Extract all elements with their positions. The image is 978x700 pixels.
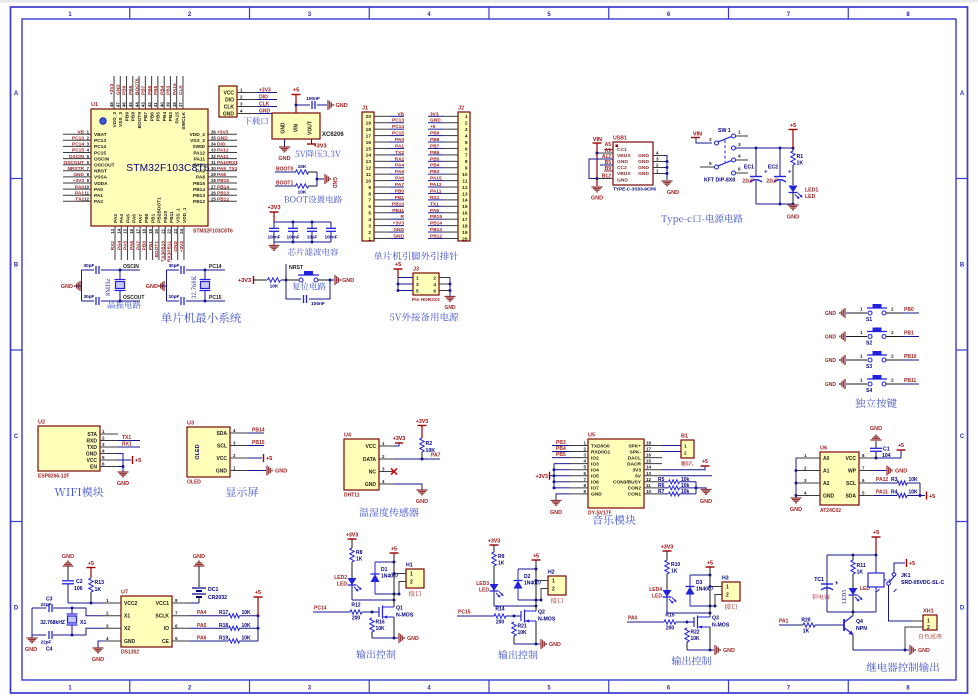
svg-text:GND: GND: [223, 111, 235, 117]
ground ds1302: [92, 648, 104, 663]
svg-text:PC15: PC15: [94, 150, 106, 156]
transistor Q2 N-MOS: [514, 606, 556, 644]
svg-text:PA1: PA1: [779, 619, 789, 625]
power VIN sw1: [691, 132, 712, 144]
svg-text:PA10: PA10: [193, 163, 205, 169]
svg-text:SRD-05VDC-SL-C: SRD-05VDC-SL-C: [901, 580, 944, 586]
svg-text:RX1: RX1: [122, 442, 132, 448]
resistor boot1 10K: [295, 184, 317, 196]
title download port: [244, 117, 268, 125]
svg-text:PA12: PA12: [430, 182, 442, 188]
svg-text:S1: S1: [866, 317, 872, 323]
svg-text:+3V3: +3V3: [535, 474, 548, 480]
svg-text:R18: R18: [219, 623, 228, 629]
wire music 3v3 rail: [553, 464, 571, 490]
svg-text:GND: GND: [173, 240, 179, 251]
module U4 pins: [363, 441, 394, 488]
wire at24 left rail: [795, 458, 798, 497]
svg-text:PC13: PC13: [392, 118, 404, 124]
svg-text:2: 2: [891, 354, 894, 360]
wire dht11 gnd: [394, 484, 422, 490]
svg-text:22uF: 22uF: [742, 179, 754, 185]
node PC14: [204, 264, 226, 272]
svg-text:R13: R13: [95, 580, 105, 586]
module U6 at24c02 body: [820, 446, 859, 506]
svg-text:DIO: DIO: [225, 97, 234, 103]
svg-text:46: 46: [122, 102, 127, 107]
svg-text:13: 13: [366, 159, 372, 165]
wire out2 main vert: [535, 569, 537, 606]
svg-text:VDD_1: VDD_1: [182, 207, 188, 223]
svg-text:GND: GND: [278, 156, 290, 162]
svg-text:D: D: [14, 606, 19, 612]
svg-text:21: 21: [160, 228, 165, 233]
svg-text:LED2: LED2: [334, 575, 347, 581]
svg-text:PB1: PB1: [904, 331, 914, 337]
svg-text:GND: GND: [823, 493, 835, 499]
wire usb B5 stub: [600, 164, 613, 166]
svg-text:PB4: PB4: [162, 112, 168, 122]
svg-text:N-MOS: N-MOS: [712, 623, 730, 629]
ground regulator cap: [328, 100, 348, 110]
gnd crystal1: [61, 281, 82, 291]
connector XH1: [905, 609, 937, 651]
svg-text:DHT11: DHT11: [344, 493, 360, 499]
svg-text:15: 15: [366, 146, 372, 152]
svg-text:A0: A0: [823, 456, 830, 462]
svg-text:1K: 1K: [95, 587, 102, 593]
svg-text:+3V3: +3V3: [238, 278, 251, 284]
svg-text:GND: GND: [444, 305, 456, 311]
power +5 ds1302: [254, 590, 263, 616]
svg-text:SCL: SCL: [217, 443, 227, 449]
module U7 ds1302 body: [121, 590, 172, 648]
ground wifi: [117, 467, 129, 488]
svg-text:22pF: 22pF: [41, 640, 52, 645]
svg-text:CE: CE: [162, 639, 170, 645]
crystal X1 32.768kHZ: [40, 607, 86, 636]
ground typec: [787, 205, 799, 221]
svg-text:Pin HDR2X3: Pin HDR2X3: [412, 297, 440, 303]
gnd crystal2: [146, 281, 167, 291]
ground regulator: [278, 139, 290, 162]
svg-text:+5: +5: [929, 494, 935, 500]
svg-text:30pF: 30pF: [84, 263, 95, 268]
svg-text:+5: +5: [395, 262, 401, 268]
svg-text:IO5: IO5: [591, 474, 599, 480]
svg-text:X2: X2: [124, 626, 130, 632]
svg-text:WP: WP: [848, 468, 857, 474]
capacitor crystal1 bottom 30pF: [82, 294, 121, 305]
connector J3 HDR2X3: [398, 267, 450, 296]
capacitor regulator 100nF: [296, 96, 327, 109]
svg-text:LED: LED: [652, 594, 662, 600]
power +3V3 out1: [346, 533, 359, 549]
net label TX1: [118, 435, 140, 441]
svg-text:VB: VB: [397, 111, 404, 117]
svg-text:VCC: VCC: [86, 458, 97, 464]
svg-text:PB14: PB14: [217, 184, 229, 190]
wire usb A12 loop: [589, 159, 613, 180]
svg-text:GND: GND: [216, 468, 228, 474]
label H1 jiekou: [409, 591, 421, 597]
ground DC1 top: [193, 554, 205, 566]
capacitors filter bank: [268, 222, 338, 242]
module U2 esp8266 body: [38, 420, 100, 472]
svg-text:PA4: PA4: [395, 163, 404, 169]
title output control 1: [356, 650, 395, 659]
svg-text:PB8: PB8: [128, 85, 134, 95]
svg-text:47: 47: [115, 102, 120, 107]
power VIN usb: [593, 137, 603, 186]
svg-text:1: 1: [860, 330, 863, 336]
power +3V3 reset: [238, 276, 260, 284]
svg-text:3: 3: [368, 223, 371, 229]
svg-text:TXD/IO0: TXD/IO0: [591, 443, 610, 449]
svg-text:S2: S2: [866, 341, 872, 347]
svg-text:SCL: SCL: [846, 481, 856, 487]
svg-text:PB11: PB11: [904, 378, 916, 384]
wire out2 loop bottom: [518, 599, 541, 602]
svg-text:200: 200: [666, 626, 675, 632]
net label PB15: [248, 440, 265, 446]
svg-text:R20: R20: [801, 618, 810, 624]
svg-text:N-MOS: N-MOS: [396, 613, 414, 619]
svg-text:PA0: PA0: [628, 616, 638, 622]
button S2: [850, 328, 919, 347]
wire at24 pullup join: [919, 483, 922, 497]
svg-text:PA11: PA11: [194, 156, 206, 162]
ground button S3: [825, 355, 850, 365]
power +5 at24 pullup: [927, 492, 936, 501]
svg-text:10: 10: [646, 489, 652, 494]
svg-text:PB12: PB12: [217, 197, 229, 203]
svg-text:11: 11: [366, 172, 371, 178]
wire usb right gnd rail: [653, 151, 669, 181]
svg-text:H1: H1: [406, 563, 413, 569]
svg-text:OSCIN: OSCIN: [69, 154, 85, 160]
svg-text:2: 2: [709, 137, 712, 143]
svg-text:TC1: TC1: [814, 577, 824, 583]
svg-text:10: 10: [462, 172, 468, 178]
svg-text:GND: GND: [407, 636, 419, 642]
svg-text:PA12: PA12: [217, 148, 229, 154]
svg-text:PA1: PA1: [395, 143, 404, 149]
label U2 part: [38, 474, 69, 480]
connector USB1 pin names: [617, 147, 649, 184]
net label PB14: [248, 428, 265, 434]
svg-text:+3V3: +3V3: [416, 419, 429, 425]
svg-text:18: 18: [366, 127, 372, 133]
svg-text:6: 6: [738, 167, 741, 173]
svg-text:5: 5: [709, 161, 712, 167]
connector P1 download body: [219, 86, 237, 117]
ground relay: [905, 645, 930, 655]
svg-text:VOUT: VOUT: [308, 121, 314, 135]
svg-text:45: 45: [128, 102, 133, 107]
svg-text:U1: U1: [91, 102, 98, 108]
ground ds crystal: [25, 635, 38, 653]
svg-text:CR2032: CR2032: [208, 595, 227, 601]
svg-text:CLK: CLK: [259, 102, 270, 108]
svg-text:PA3: PA3: [113, 214, 119, 223]
svg-text:1: 1: [552, 579, 555, 585]
module U3 pins: [216, 428, 248, 474]
svg-text:PA8: PA8: [196, 175, 205, 181]
svg-text:4: 4: [433, 282, 436, 288]
svg-text:30pF: 30pF: [84, 294, 95, 299]
title mcu minimal system: [161, 312, 241, 323]
svg-text:1: 1: [927, 619, 930, 625]
svg-text:5: 5: [368, 211, 371, 217]
ground at24 left: [790, 496, 802, 514]
net label PA7: [394, 453, 441, 461]
svg-text:11: 11: [84, 190, 89, 195]
svg-text:100nF: 100nF: [325, 235, 338, 240]
svg-text:PC13: PC13: [94, 138, 106, 144]
svg-text:PA5: PA5: [197, 623, 207, 629]
svg-text:CLK: CLK: [224, 104, 235, 110]
svg-text:5V: 5V: [635, 474, 642, 480]
svg-text:A: A: [960, 91, 965, 97]
svg-text:PB10: PB10: [904, 354, 917, 360]
svg-text:PA11: PA11: [217, 154, 229, 160]
resistor R3 10K: [874, 477, 920, 485]
svg-text:R2: R2: [426, 441, 433, 447]
ground boot: [325, 174, 337, 189]
power +3V3 regulator out: [307, 139, 327, 150]
svg-text:OSCOUT: OSCOUT: [94, 163, 115, 169]
svg-text:RXD: RXD: [86, 438, 97, 444]
ground at24 wp: [874, 466, 907, 476]
ground filter: [269, 242, 280, 250]
wire relay bottom rail: [827, 611, 876, 614]
battery DC1 CR2032: [190, 566, 227, 603]
power +5 out2: [532, 554, 541, 571]
title music module: [593, 515, 636, 525]
svg-text:+3V3: +3V3: [661, 545, 674, 551]
svg-text:LED1: LED1: [805, 188, 818, 194]
label U3 part: [187, 480, 201, 486]
svg-text:29: 29: [211, 172, 216, 177]
svg-text:PB9: PB9: [124, 112, 130, 122]
svg-text:R15: R15: [665, 613, 674, 619]
svg-text:PB14: PB14: [430, 221, 442, 227]
node regulator vin: [295, 104, 298, 107]
svg-text:PA5: PA5: [123, 241, 129, 250]
wire music spk: [662, 446, 681, 452]
svg-text:2: 2: [465, 121, 468, 127]
svg-text:PC14: PC14: [392, 124, 404, 130]
svg-text:PB3: PB3: [168, 112, 174, 122]
svg-text:PB14: PB14: [193, 187, 205, 193]
svg-text:10K: 10K: [518, 630, 528, 636]
wire out2 gnd rail: [514, 643, 538, 646]
svg-text:17: 17: [646, 447, 652, 452]
svg-text:RX2: RX2: [110, 241, 116, 251]
resistor R15 200: [664, 613, 689, 632]
svg-text:PA8: PA8: [430, 208, 439, 214]
net label PA1: [779, 619, 800, 626]
ground C1: [870, 426, 882, 440]
svg-text:U5: U5: [588, 433, 595, 439]
svg-text:+5: +5: [898, 443, 904, 449]
svg-text:GND: GND: [638, 153, 649, 159]
net label PC14: [313, 606, 350, 613]
svg-text:1K: 1K: [797, 161, 804, 167]
svg-text:+3V3: +3V3: [393, 221, 405, 227]
wire usb B12 stub: [597, 178, 613, 180]
svg-text:+3V3: +3V3: [268, 205, 281, 211]
wire filter bottom rail: [274, 241, 331, 244]
resistor R20 1K: [797, 618, 844, 635]
svg-text:VIN: VIN: [593, 137, 602, 143]
svg-text:R3: R3: [891, 477, 898, 483]
svg-text:PA15: PA15: [172, 83, 178, 95]
svg-text:PB12: PB12: [430, 233, 442, 239]
title typec power: [661, 214, 742, 225]
svg-text:13: 13: [462, 191, 468, 197]
resistor R4 10K: [874, 490, 925, 498]
resistors R17 R18 R19: [190, 610, 258, 643]
capacitor C2 106: [62, 566, 91, 603]
svg-text:7: 7: [368, 198, 371, 204]
wire J3 right rail: [449, 278, 452, 297]
svg-text:3: 3: [416, 282, 419, 288]
svg-text:1: 1: [726, 585, 729, 591]
ground button S4: [825, 379, 850, 389]
svg-text:D: D: [960, 606, 965, 612]
svg-text:1: 1: [860, 378, 863, 384]
svg-text:44: 44: [134, 102, 139, 107]
svg-text:PB8: PB8: [430, 137, 440, 143]
wire boot join: [316, 172, 325, 186]
svg-text:BOOT1: BOOT1: [154, 241, 160, 258]
svg-text:CON3/BUSY: CON3/BUSY: [613, 480, 642, 486]
svg-text:4: 4: [368, 217, 371, 223]
connector J1 header: [362, 106, 405, 243]
regulator U8 pin labels: [281, 121, 314, 135]
node reset gnd join: [329, 279, 332, 282]
svg-text:20: 20: [366, 114, 372, 120]
title reset circuit: [292, 282, 325, 290]
wire usb A5 stub: [604, 149, 613, 151]
svg-text:PA4: PA4: [116, 241, 122, 250]
svg-text:OLED: OLED: [187, 480, 201, 486]
svg-text:PA8: PA8: [217, 172, 226, 178]
svg-text:PA6: PA6: [129, 241, 135, 250]
mcu U1 left pins: [63, 129, 115, 205]
svg-text:PB15: PB15: [217, 178, 229, 184]
svg-text:XC6206: XC6206: [322, 132, 344, 138]
title filter caps: [288, 248, 338, 256]
svg-text:8: 8: [465, 159, 468, 165]
mcu U1 bottom pins: [110, 197, 188, 262]
svg-text:37: 37: [178, 102, 183, 107]
svg-text:PA15: PA15: [175, 112, 181, 124]
svg-text:1: 1: [860, 307, 863, 313]
svg-text:6: 6: [368, 204, 371, 210]
svg-text:PB3: PB3: [430, 169, 440, 175]
svg-text:C: C: [960, 434, 965, 440]
svg-text:106: 106: [74, 586, 83, 592]
svg-text:5: 5: [465, 140, 468, 146]
resistor R14 200: [494, 607, 516, 626]
svg-text:PA12: PA12: [876, 477, 888, 483]
svg-text:GND: GND: [393, 227, 404, 233]
svg-text:GND: GND: [591, 196, 603, 202]
title humidity sensor: [359, 507, 418, 516]
svg-text:VCC: VCC: [845, 456, 856, 462]
svg-text:PB6: PB6: [149, 112, 155, 122]
svg-text:LED: LED: [479, 588, 489, 594]
label speaker: [681, 461, 693, 467]
svg-text:16: 16: [462, 211, 468, 217]
svg-text:3V3: 3V3: [430, 111, 439, 117]
svg-text:PC14: PC14: [94, 144, 106, 150]
svg-text:+: +: [835, 581, 839, 587]
svg-text:PB5: PB5: [430, 156, 440, 162]
connector B1 speaker: [681, 434, 694, 459]
svg-text:PA4: PA4: [197, 610, 207, 616]
svg-text:PA0: PA0: [395, 137, 404, 143]
svg-text:PB15: PB15: [193, 181, 205, 187]
led LED3: [476, 581, 503, 606]
svg-text:H2: H2: [548, 570, 555, 576]
svg-text:1K: 1K: [356, 557, 363, 563]
wire out2 led elbow: [494, 605, 538, 608]
label JK1: [901, 573, 944, 586]
svg-text:S4: S4: [866, 388, 872, 394]
svg-text:+3V3: +3V3: [179, 241, 185, 253]
svg-text:SPK+: SPK+: [628, 443, 641, 449]
svg-text:14: 14: [646, 465, 652, 470]
svg-text:GND: GND: [331, 177, 337, 189]
capacitor reset 100nF: [304, 295, 325, 307]
ground button S2: [825, 332, 850, 342]
svg-text:GND: GND: [895, 469, 907, 475]
mcu U1 part name: [126, 163, 210, 174]
svg-text:U7: U7: [121, 590, 128, 596]
svg-text:24: 24: [179, 228, 184, 233]
node OSCIN: [119, 264, 141, 272]
svg-text:32.768kHZ: 32.768kHZ: [40, 620, 65, 626]
svg-text:+5: +5: [293, 88, 299, 94]
svg-text:19: 19: [366, 121, 372, 127]
svg-text:D3: D3: [696, 580, 703, 586]
svg-text:GND: GND: [617, 178, 628, 184]
svg-text:R11: R11: [857, 563, 866, 569]
wire music 5v row: [662, 475, 712, 477]
svg-text:+5: +5: [266, 456, 272, 462]
svg-text:PB5: PB5: [153, 85, 159, 95]
svg-text:U3: U3: [187, 421, 194, 427]
led LED4: [649, 587, 676, 613]
capacitor crystal2 top 30pF: [167, 263, 206, 274]
svg-text:+5: +5: [790, 123, 796, 129]
svg-text:+5: +5: [255, 590, 261, 596]
svg-text:GND: GND: [870, 426, 882, 432]
svg-text:1: 1: [416, 275, 419, 281]
power +5 wifi: [118, 456, 141, 464]
svg-text:TYPE-C-3S03-9CP6: TYPE-C-3S03-9CP6: [613, 187, 656, 192]
svg-text:+5: +5: [135, 458, 141, 464]
resistor R10 1K: [665, 560, 681, 590]
svg-text:R9: R9: [498, 554, 505, 560]
svg-text:GND: GND: [117, 481, 129, 487]
wire relay top rail: [827, 554, 876, 557]
svg-text:H3: H3: [722, 576, 729, 582]
